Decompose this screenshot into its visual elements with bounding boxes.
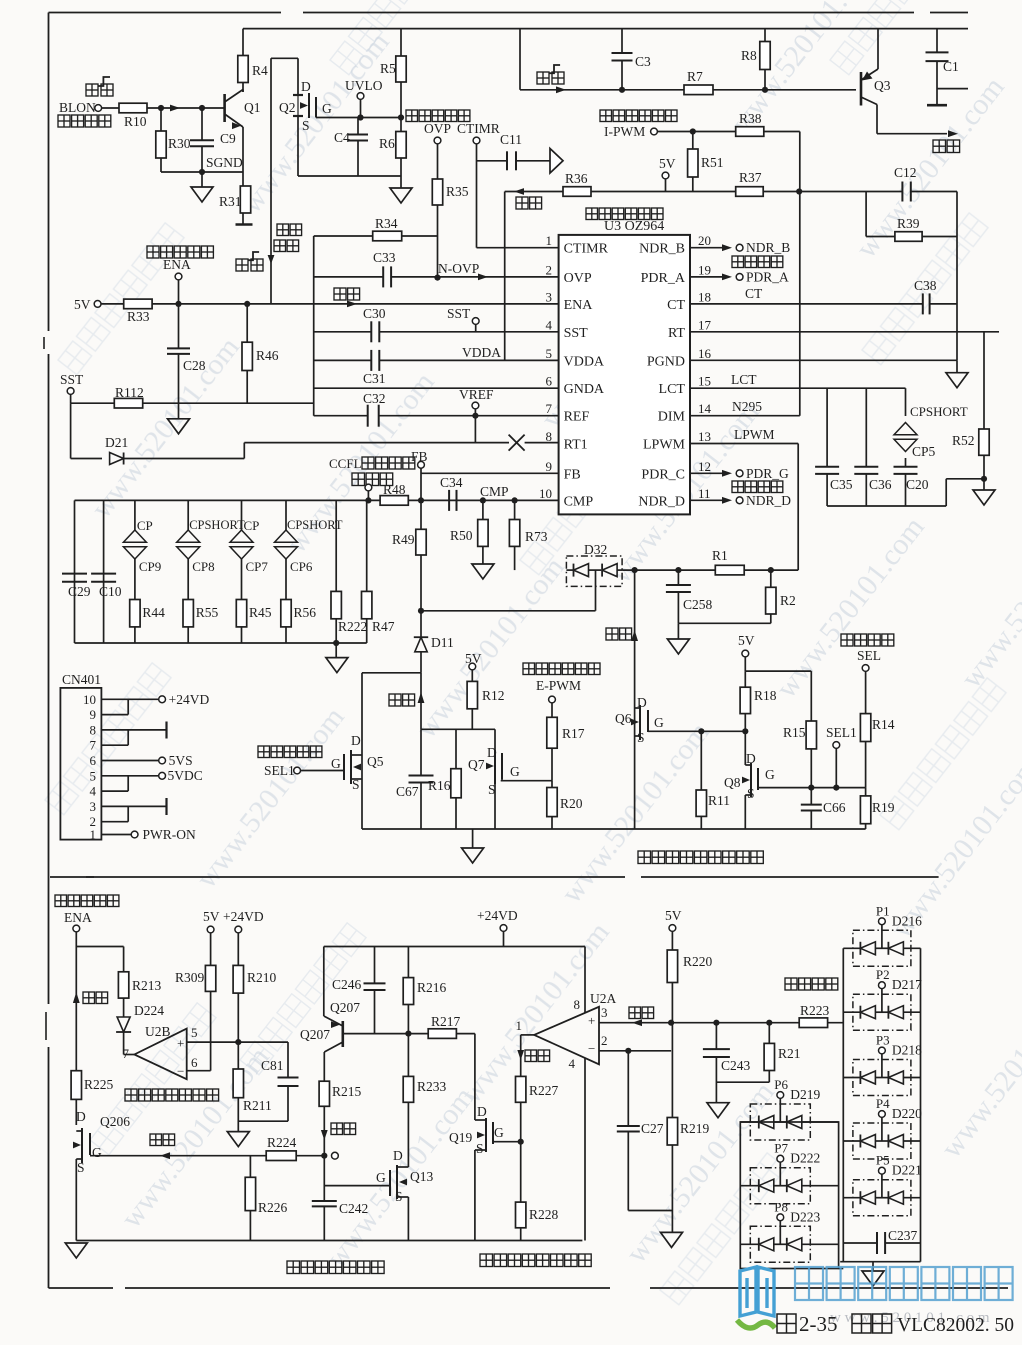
capacitor C66 <box>810 788 812 805</box>
wire U2B output from D224 <box>124 1054 135 1056</box>
svg-text:C30: C30 <box>363 306 386 321</box>
svg-text:1: 1 <box>90 827 97 842</box>
svg-text:CTIMR: CTIMR <box>457 121 500 136</box>
capacitor C31 <box>370 350 372 371</box>
svg-text:R46: R46 <box>256 348 279 363</box>
resistor R18 <box>744 671 746 687</box>
svg-text:D32: D32 <box>584 542 607 557</box>
label dian-deng / kong-zhi <box>277 224 289 236</box>
wire RT row corner down to R52 <box>983 332 985 429</box>
wire right vertical rail C12-C38 <box>956 192 958 361</box>
svg-text:P7: P7 <box>774 1141 788 1156</box>
svg-text:R6: R6 <box>379 136 395 151</box>
ground at rail left end <box>65 1243 87 1258</box>
svg-text:8: 8 <box>546 429 553 444</box>
svg-text:9: 9 <box>546 459 553 474</box>
wire Q3 emitter supply with arrow <box>877 133 947 135</box>
resistor R16 <box>455 729 457 768</box>
capacitor C243 <box>715 1023 717 1049</box>
svg-text:R309: R309 <box>175 970 205 985</box>
svg-text:RT: RT <box>668 326 685 341</box>
resistor R6 <box>396 132 406 159</box>
svg-text:OVP: OVP <box>564 271 592 286</box>
svg-text:R16: R16 <box>428 778 451 793</box>
svg-text:R50: R50 <box>450 528 473 543</box>
resistor R228 <box>516 1202 526 1228</box>
wire Q2 source down <box>297 116 299 176</box>
resistor R49 <box>420 500 422 529</box>
svg-text:S: S <box>302 118 310 133</box>
pin 15 wire LCT row <box>690 387 906 389</box>
svg-text:R224: R224 <box>267 1135 297 1150</box>
svg-text:VREF: VREF <box>459 387 494 402</box>
svg-text:NDR_D: NDR_D <box>746 493 791 508</box>
svg-text:R45: R45 <box>249 605 272 620</box>
svg-text:R15: R15 <box>783 725 806 740</box>
svg-text:C258: C258 <box>683 597 713 612</box>
svg-text:C4: C4 <box>334 130 350 145</box>
svg-text:R35: R35 <box>446 184 469 199</box>
svg-text:CPSHORT: CPSHORT <box>287 518 343 532</box>
wire C27 bottom to R219 <box>628 1210 672 1212</box>
resistor R39 <box>866 236 895 238</box>
resistor R52 <box>979 429 989 455</box>
svg-text:5VDC: 5VDC <box>168 768 203 783</box>
svg-text:1: 1 <box>516 1018 523 1033</box>
capacitor C35 <box>826 388 828 467</box>
svg-text:Q206: Q206 <box>100 1114 130 1129</box>
svg-text:9: 9 <box>90 707 97 722</box>
svg-text:C81: C81 <box>261 1058 284 1073</box>
svg-text:CP: CP <box>137 518 153 533</box>
resistor R1 <box>715 565 744 575</box>
svg-text:S: S <box>476 1141 484 1156</box>
wire Q207 base row <box>343 1033 428 1035</box>
svg-text:Q207: Q207 <box>330 1000 360 1015</box>
svg-text:R219: R219 <box>680 1121 710 1136</box>
svg-text:BLON: BLON <box>59 100 96 115</box>
svg-text:2-35: 2-35 <box>799 1312 838 1336</box>
svg-text:D223: D223 <box>790 1209 820 1224</box>
wire D32 mid tap down <box>595 570 597 611</box>
label kai-qi-dian-ya <box>58 115 70 127</box>
svg-text:G: G <box>494 1125 504 1140</box>
svg-text:8: 8 <box>90 722 97 737</box>
ground below C237 <box>872 1262 874 1271</box>
resistor R8 <box>764 29 766 42</box>
wire R227 to R228 <box>520 1102 522 1202</box>
svg-text:U2A: U2A <box>590 991 616 1006</box>
label bao-hu left <box>150 1134 162 1146</box>
svg-text:D: D <box>393 1148 403 1163</box>
switch waveform label kai-guan 3 <box>537 72 549 84</box>
resistor R38 <box>736 127 764 137</box>
resistor R213 <box>123 947 125 972</box>
svg-text:Q5: Q5 <box>367 754 384 769</box>
wire R5 to R6 <box>400 82 402 132</box>
op-amp U2A <box>534 1007 599 1065</box>
svg-text:14: 14 <box>698 401 712 416</box>
svg-text:R52: R52 <box>952 433 975 448</box>
svg-text:P4: P4 <box>876 1096 890 1111</box>
svg-text:5: 5 <box>546 346 553 361</box>
svg-text:VDDA: VDDA <box>564 354 605 369</box>
svg-text:7: 7 <box>90 738 97 753</box>
resistor R5 <box>400 29 402 56</box>
label protection detect <box>785 978 797 990</box>
svg-text:Q1: Q1 <box>244 100 261 115</box>
resistor R216 <box>407 947 409 978</box>
svg-text:10: 10 <box>83 692 96 707</box>
capacitor C29 <box>62 573 87 575</box>
node FBK terminal <box>352 473 365 486</box>
label gong-dian supply <box>516 197 528 209</box>
svg-text:R17: R17 <box>562 726 585 741</box>
svg-text:P6: P6 <box>774 1077 788 1092</box>
svg-text:VDDA: VDDA <box>462 345 501 360</box>
resistor R112 <box>71 402 115 404</box>
svg-text:NDR_B: NDR_B <box>639 242 685 257</box>
wire Q2 gate to UVLO node <box>316 117 401 119</box>
svg-text:P5: P5 <box>876 1153 890 1168</box>
svg-text:C67: C67 <box>396 784 419 799</box>
label gong-dian supply right <box>933 140 946 153</box>
svg-text:C38: C38 <box>914 278 937 293</box>
svg-text:R30: R30 <box>168 136 191 151</box>
capacitor C3 <box>621 29 623 53</box>
svg-text:R210: R210 <box>247 970 277 985</box>
svg-text:5VS: 5VS <box>169 753 193 768</box>
svg-text:C31: C31 <box>363 371 386 386</box>
svg-text:3: 3 <box>546 289 553 304</box>
svg-text:C36: C36 <box>869 477 892 492</box>
svg-text:C32: C32 <box>363 391 386 406</box>
pin 20 wire NDR_B output <box>690 247 722 249</box>
svg-text:C66: C66 <box>823 800 846 815</box>
resistor R219 <box>667 1118 677 1146</box>
wire diode array right rail <box>920 948 922 1243</box>
capacitor C38 <box>922 293 924 314</box>
wire Q19 source to rail <box>474 1150 476 1241</box>
svg-text:P3: P3 <box>876 1033 890 1048</box>
wire bottom top rail <box>324 946 585 948</box>
wire SST vertical to D21 row <box>70 403 72 458</box>
wire C38 to rail <box>930 303 957 305</box>
svg-text:Q19: Q19 <box>449 1130 472 1145</box>
resistor R222 <box>335 500 337 591</box>
switch waveform label kai-guan 2 <box>236 259 248 271</box>
ground below R6 <box>400 176 402 188</box>
svg-text:R34: R34 <box>375 216 398 231</box>
svg-text:C28: C28 <box>183 358 206 373</box>
svg-text:11: 11 <box>698 486 711 501</box>
svg-text:C34: C34 <box>440 475 463 490</box>
svg-text:3: 3 <box>601 1005 608 1020</box>
svg-text:PDR_A: PDR_A <box>641 271 686 286</box>
svg-text:PGND: PGND <box>647 354 685 369</box>
svg-text:R47: R47 <box>372 619 395 634</box>
svg-text:18: 18 <box>698 289 711 304</box>
svg-text:NDR_D: NDR_D <box>638 494 685 509</box>
svg-text:CMP: CMP <box>480 484 509 499</box>
label external dimming pulse <box>523 663 535 675</box>
svg-text:R1: R1 <box>712 548 728 563</box>
wire I-PWM row <box>657 131 735 133</box>
pin 17 wire RT row <box>690 331 999 333</box>
svg-text:R2: R2 <box>780 593 796 608</box>
resistor R215 <box>319 1081 329 1106</box>
wire pin3 row ENA from 5V <box>101 303 559 305</box>
wire FBK top rail <box>74 500 76 643</box>
svg-text:CP9: CP9 <box>139 559 161 574</box>
svg-text:C35: C35 <box>830 477 853 492</box>
svg-text:7: 7 <box>123 1046 130 1061</box>
svg-text:R112: R112 <box>115 385 144 400</box>
ground below C243 <box>707 1103 729 1118</box>
svg-text:U3 OZ964: U3 OZ964 <box>604 219 664 234</box>
op-amp U2B <box>134 1029 186 1080</box>
svg-text:www.520101.com: www.520101.com <box>955 501 1022 694</box>
wire CP network bottom rail <box>75 642 367 644</box>
svg-text:C3: C3 <box>635 54 651 69</box>
svg-text:5V: 5V <box>203 909 220 924</box>
svg-text:CP5: CP5 <box>912 444 936 459</box>
svg-text:D: D <box>301 79 311 94</box>
wire CN401 pin10 to +24VD <box>101 698 158 700</box>
caption figure 2-35 <box>777 1314 796 1333</box>
wire C237 bottom row <box>840 1261 920 1263</box>
transistor Q207 <box>341 1021 344 1047</box>
svg-text:C237: C237 <box>888 1228 918 1243</box>
resistor R50 <box>480 497 486 503</box>
wire supply row to PWM junction <box>591 191 799 193</box>
wire pin9 row FB <box>421 472 559 474</box>
svg-text:C29: C29 <box>68 584 91 599</box>
surge arrester CP9 <box>134 500 136 530</box>
svg-text:−: − <box>177 1064 184 1079</box>
wire CN401 pin6 to 5VS <box>101 760 158 762</box>
svg-text:Q7: Q7 <box>468 757 485 772</box>
svg-text:SST: SST <box>447 306 471 321</box>
wire Q5 block left edge <box>361 673 363 745</box>
resistor R33 <box>124 299 152 309</box>
svg-text:ENA: ENA <box>564 298 594 313</box>
capacitor C32 <box>367 405 369 427</box>
svg-text:R223: R223 <box>800 1003 830 1018</box>
svg-text:PDR_A: PDR_A <box>746 270 789 285</box>
resistor R45 <box>236 600 246 627</box>
svg-text:P2: P2 <box>876 967 890 982</box>
resistor R7 <box>684 85 713 95</box>
svg-text:CTIMR: CTIMR <box>564 242 609 257</box>
resistor R210 <box>233 965 243 993</box>
svg-text:4: 4 <box>90 784 97 799</box>
pin 18 wire CT row <box>690 303 923 305</box>
resistor R73 <box>511 497 517 503</box>
wire R233 to Q13 drain <box>407 1102 409 1153</box>
resistor R217 <box>428 1029 456 1039</box>
svg-text:R44: R44 <box>142 605 165 620</box>
resistor R17 <box>547 717 557 748</box>
wire caps bottom rail <box>827 505 946 507</box>
resistor R224 <box>266 1151 296 1161</box>
svg-text:www.520101.com: www.520101.com <box>235 26 396 219</box>
svg-text:CP: CP <box>244 518 260 533</box>
svg-text:PDR_C: PDR_C <box>641 467 685 482</box>
wire R224 to junction <box>296 1155 324 1157</box>
svg-text:1: 1 <box>546 233 553 248</box>
svg-text:E-PWM: E-PWM <box>536 678 581 693</box>
svg-text:VLC82002. 50: VLC82002. 50 <box>897 1315 1014 1336</box>
wire CN401 pin8 stub <box>101 729 165 731</box>
label drive control circuit <box>586 208 598 220</box>
svg-text:D224: D224 <box>134 1003 164 1018</box>
wire pin1 row CTIMR <box>477 247 559 249</box>
surge arrester CP5 CPSHORT <box>905 388 907 416</box>
transistor Q1 <box>223 94 226 122</box>
svg-text:D218: D218 <box>892 1043 922 1058</box>
resistor R15 <box>806 721 816 749</box>
svg-text:R227: R227 <box>529 1083 559 1098</box>
svg-text:R18: R18 <box>754 688 777 703</box>
capacitor C237 <box>843 1242 877 1244</box>
svg-text:R226: R226 <box>258 1200 288 1215</box>
label dian-deng with arrow <box>334 288 346 300</box>
resistor R227 <box>516 1076 526 1102</box>
svg-text:R225: R225 <box>84 1077 114 1092</box>
resistor R233 <box>407 1034 409 1077</box>
ground below R50 <box>482 546 484 564</box>
svg-text:C243: C243 <box>721 1058 751 1073</box>
wire Q2 drain branch <box>271 57 298 59</box>
diode D11 <box>415 637 427 652</box>
svg-text:16: 16 <box>698 346 712 361</box>
svg-text:D217: D217 <box>892 977 922 992</box>
svg-text:D: D <box>76 1109 86 1124</box>
svg-text:6: 6 <box>546 374 553 389</box>
resistor R36 <box>505 191 563 193</box>
svg-text:LPWM: LPWM <box>643 438 686 453</box>
wire protect row R224 <box>90 1155 266 1157</box>
pin 11 wire NDR_D output <box>690 499 722 501</box>
resistor R34 <box>314 235 373 237</box>
svg-text:FB: FB <box>564 467 581 482</box>
svg-text:www.520101.com: www.520101.com <box>620 1076 781 1269</box>
wire top supply rail <box>243 28 968 30</box>
wire R215 to protect node with arrow <box>323 1106 325 1155</box>
svg-text:Q8: Q8 <box>724 775 741 790</box>
capacitor C246 <box>374 947 376 984</box>
ic U3 OZ964 body <box>559 235 690 515</box>
capacitor C242 <box>312 1200 337 1202</box>
resistor R35 <box>437 144 439 179</box>
resistor R31 <box>242 127 244 186</box>
svg-text:6: 6 <box>191 1055 198 1070</box>
svg-text:13: 13 <box>698 429 711 444</box>
wire R10 to Q1 base <box>147 107 225 109</box>
caption changhong VLC82002.50 <box>852 1314 871 1333</box>
svg-text:Q2: Q2 <box>279 100 296 115</box>
svg-text:R7: R7 <box>687 69 703 84</box>
resistor R10 <box>102 107 119 109</box>
wire R1 to LPWM corner <box>744 569 798 571</box>
svg-text:4: 4 <box>569 1056 576 1071</box>
svg-text:R48: R48 <box>383 482 406 497</box>
svg-text:15: 15 <box>698 374 711 389</box>
wire CTIMR vertical to pin 1 <box>476 144 478 248</box>
svg-text:www.520101.com: www.520101.com <box>850 71 1011 264</box>
wire supply vertical to VDDA row <box>504 192 506 361</box>
resistor R19 <box>865 788 867 796</box>
wire block bottom rail <box>362 828 866 830</box>
svg-text:G: G <box>654 715 664 730</box>
wire 5V top branch to R15 <box>745 670 811 672</box>
svg-text:R36: R36 <box>565 171 588 186</box>
svg-text:SEL: SEL <box>857 648 881 663</box>
svg-text:C27: C27 <box>641 1121 664 1136</box>
svg-text:C12: C12 <box>894 165 917 180</box>
svg-text:CP6: CP6 <box>290 559 313 574</box>
svg-text:+: + <box>588 1013 595 1028</box>
resistor R47 <box>366 500 368 591</box>
svg-text:C20: C20 <box>906 477 929 492</box>
svg-text:10: 10 <box>539 486 552 501</box>
svg-text:RT1: RT1 <box>564 438 588 453</box>
resistor R12 <box>467 681 477 708</box>
svg-text:R37: R37 <box>739 170 762 185</box>
wire R217 corner down to Q19 <box>456 1033 475 1035</box>
wire CN401 pin1 to PWR-ON <box>101 834 131 836</box>
svg-text:R216: R216 <box>417 980 447 995</box>
svg-text:Q6: Q6 <box>615 711 632 726</box>
wire group box to rail <box>839 1268 844 1270</box>
buffer arrow symbol after C11 <box>550 149 563 174</box>
svg-text:8: 8 <box>574 997 581 1012</box>
svg-text:G: G <box>322 101 332 116</box>
ground below SGND <box>201 172 203 187</box>
wire Q5 block top edge <box>362 672 421 674</box>
svg-text:R233: R233 <box>417 1079 447 1094</box>
svg-text:SEL1: SEL1 <box>826 725 857 740</box>
svg-text:R213: R213 <box>132 978 162 993</box>
pin 19 wire PDR_A output <box>690 276 722 278</box>
svg-text:CPSHORT: CPSHORT <box>910 404 968 419</box>
svg-text:D21: D21 <box>105 435 128 450</box>
svg-text:P1: P1 <box>876 903 890 918</box>
blue logo open book <box>740 1267 774 1316</box>
capacitor C9 <box>201 108 203 140</box>
svg-text:G: G <box>510 764 520 779</box>
svg-text:U2B: U2B <box>145 1024 171 1039</box>
ground below C28 <box>168 419 190 434</box>
svg-text:R14: R14 <box>872 717 895 732</box>
resistor R11 <box>700 731 702 790</box>
resistor R37 <box>736 187 764 197</box>
capacitor C4 <box>357 118 359 135</box>
svg-text:PWR-ON: PWR-ON <box>143 827 196 842</box>
svg-text:N-OVP: N-OVP <box>438 261 479 276</box>
pin 13 wire LPWM row <box>690 443 798 445</box>
ground bar below R31 <box>236 223 253 226</box>
svg-text:P8: P8 <box>774 1199 788 1214</box>
resistor R223 <box>799 1018 827 1028</box>
resistor R14 <box>860 714 870 742</box>
wire D32 tap to dimming vertical <box>421 610 596 612</box>
wire CN401 pin7 join <box>101 744 128 746</box>
label tiao-guang-fang-shi SEL <box>841 634 853 646</box>
wire pin8 row RT1 with X mark <box>244 442 509 444</box>
svg-text:ENA: ENA <box>64 910 92 925</box>
